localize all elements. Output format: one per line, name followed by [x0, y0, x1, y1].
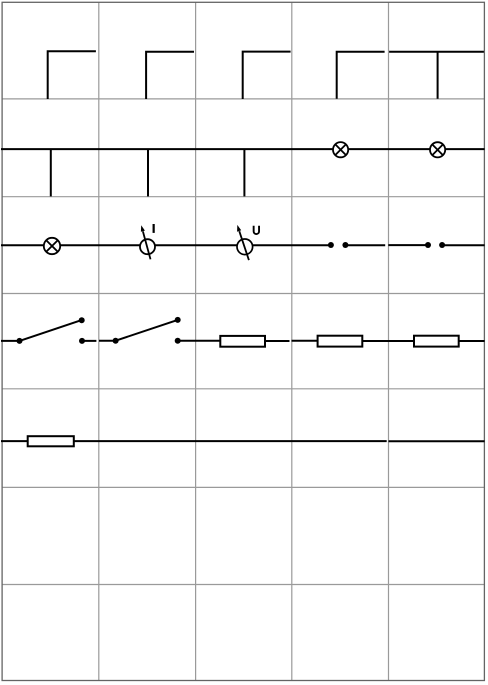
- wire stub row2 col1: [50, 149, 52, 196]
- resistor row4 col4: [318, 336, 363, 347]
- wire corner row1 col4: [337, 52, 385, 99]
- wire row2 bus: [1, 148, 485, 150]
- switch row4 col2: [113, 317, 181, 344]
- wire corner row1 col2: [146, 52, 194, 99]
- wire row4 segment c: [178, 340, 221, 342]
- wire row3 left segment: [1, 244, 331, 246]
- contact node row3 col4 right: [342, 242, 348, 248]
- lamp row2 col4: [333, 142, 348, 157]
- label U: [254, 226, 259, 234]
- resistor row5 col1: [28, 436, 74, 446]
- lamp row3 col1: [44, 238, 60, 254]
- wire corner row1 col1: [48, 51, 96, 99]
- switch row4 col1: [17, 317, 86, 344]
- contact node row3 col4 left: [328, 242, 334, 248]
- contact node row3 col5 left: [425, 242, 431, 248]
- wire stub row2 col3: [243, 149, 245, 196]
- wire with corner row1 col5: [389, 52, 484, 99]
- resistor row4 col3: [220, 336, 265, 347]
- wire row3 middle segment: [345, 244, 428, 246]
- resistor row4 col5: [414, 336, 459, 347]
- contact node row3 col5 right: [439, 242, 445, 248]
- wire corner row1 col3: [243, 52, 291, 99]
- label I: [153, 224, 155, 233]
- wire row4 segment f: [459, 340, 485, 342]
- wire row4 segment d: [265, 340, 318, 342]
- voltmeter: [237, 225, 259, 260]
- lamp row2 col5: [430, 142, 445, 157]
- ammeter: [140, 224, 155, 259]
- wire row3 right segment: [442, 244, 485, 246]
- wire row5 right: [74, 440, 485, 442]
- wire stub row2 col2: [147, 149, 149, 196]
- wire row5 left: [1, 440, 28, 442]
- wire row4 segment e: [362, 340, 414, 342]
- wire row4 segment a: [1, 340, 20, 342]
- wire row4 segment b: [82, 340, 116, 342]
